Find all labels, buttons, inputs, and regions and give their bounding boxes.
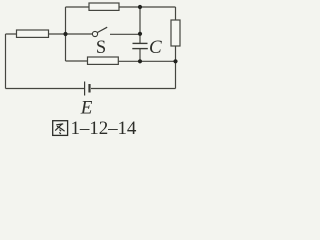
capacitor C bottom plate [132,48,148,50]
resistor R-top (horizontal, top rail) [89,3,119,10]
node: lower branch / right column junction [173,59,177,63]
wire left column [65,7,67,61]
paper background [0,0,184,139]
svg-text:C: C [149,37,162,58]
svg-text:E: E [80,97,93,118]
wire bottom rail right of battery [91,88,176,90]
battery E long plate [84,82,86,96]
battery E short thick plate [88,84,90,93]
capacitor C top plate [133,42,148,44]
wire lower branch left [66,60,88,62]
wire left side [5,34,7,89]
wire top rail [66,6,176,8]
wire capacitor column lower [139,49,141,61]
resistor R-mid (horizontal, lower middle branch) [88,57,119,64]
wire switch branch right segment [110,33,140,35]
node: switch branch / capacitor column junction [138,32,142,36]
wire switch branch left stub [66,33,93,35]
switch S contact circle [92,31,97,36]
wire right column upper [175,7,177,20]
node: left 4-way junction [63,32,67,36]
resistor R-left (horizontal, left branch) [17,30,49,37]
caption glyph 图 (hand-drawn) [53,121,68,136]
svg-text:S: S [96,38,106,58]
svg-text:1–12–14: 1–12–14 [71,118,137,139]
wire lower branch right [118,60,175,62]
wire capacitor column upper [139,7,141,43]
wire right column lower [175,46,177,89]
switch S blade [97,27,107,32]
wire bottom rail left of battery [6,88,85,90]
wire middle-left branch [6,33,66,35]
node: top rail / capacitor column junction [138,5,142,9]
resistor R-right (vertical, right column) [171,20,180,46]
node: capacitor bottom / lower branch junction [138,59,142,63]
